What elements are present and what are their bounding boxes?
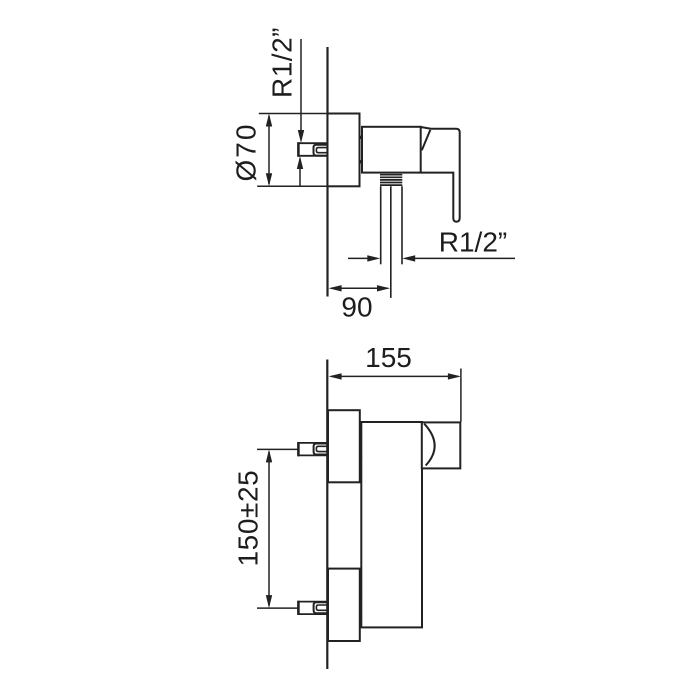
upper fitting centerline / extension	[257, 448, 298, 450]
connection tabs (side view)	[359, 434, 362, 437]
handle face arc	[424, 424, 434, 466]
wall line (side view)	[326, 360, 328, 670]
connection tab lower	[360, 160, 363, 163]
Ø70 dimension line with arrows	[266, 114, 272, 187]
inlet nipple bottom line	[298, 155, 328, 157]
upper inlet fitting (side view)	[298, 442, 329, 456]
svg-text:R1/2”: R1/2”	[439, 227, 507, 258]
dimension 90 line with arrows	[329, 285, 390, 291]
lower fitting centerline / extension	[257, 607, 298, 609]
outlet pipe right edge	[401, 186, 403, 264]
handle/body separation line	[422, 130, 431, 150]
dimension 150±25 line with arrows	[266, 449, 272, 608]
Ø70 extension line bottom	[257, 185, 327, 187]
lever handle outline (top view)	[421, 127, 460, 222]
svg-text:150±25: 150±25	[233, 470, 264, 567]
outlet thread block	[380, 175, 402, 185]
union nut inner detail	[316, 148, 328, 153]
155 right extension line	[460, 369, 462, 422]
outlet pipe left edge	[380, 186, 382, 264]
dimension R1/2 top: lower leg with up arrow	[297, 156, 303, 186]
connection tab upper	[360, 136, 363, 139]
svg-text:R1/2”: R1/2”	[267, 27, 298, 98]
dimension 155 line with arrows	[329, 373, 461, 379]
svg-text:155: 155	[365, 342, 412, 373]
inlet nipple top line	[298, 142, 328, 144]
Ø70 extension line top	[259, 113, 328, 115]
outlet centerline	[390, 186, 392, 298]
wall line (top view)	[326, 47, 328, 297]
lower inlet fitting (side view)	[298, 601, 329, 615]
mixer body (top view)	[362, 127, 421, 173]
inlet nipple left cap	[297, 142, 300, 156]
lever handle (side view)	[422, 422, 461, 468]
lower wall flange (side view)	[328, 569, 360, 641]
union nut (rounded)	[314, 145, 329, 156]
dimension R1/2 outlet: left leader with right arrow	[348, 255, 380, 261]
upper wall flange (side view)	[328, 410, 360, 482]
dimension R1/2 outlet: right leader with left arrow	[402, 255, 515, 261]
wall flange (escutcheon, top view)	[328, 114, 360, 187]
svg-text:Ø70: Ø70	[230, 123, 261, 182]
mixer body (side view)	[361, 422, 422, 627]
dimension R1/2 top: upper leg with down arrow	[298, 39, 304, 143]
svg-text:90: 90	[341, 292, 372, 323]
